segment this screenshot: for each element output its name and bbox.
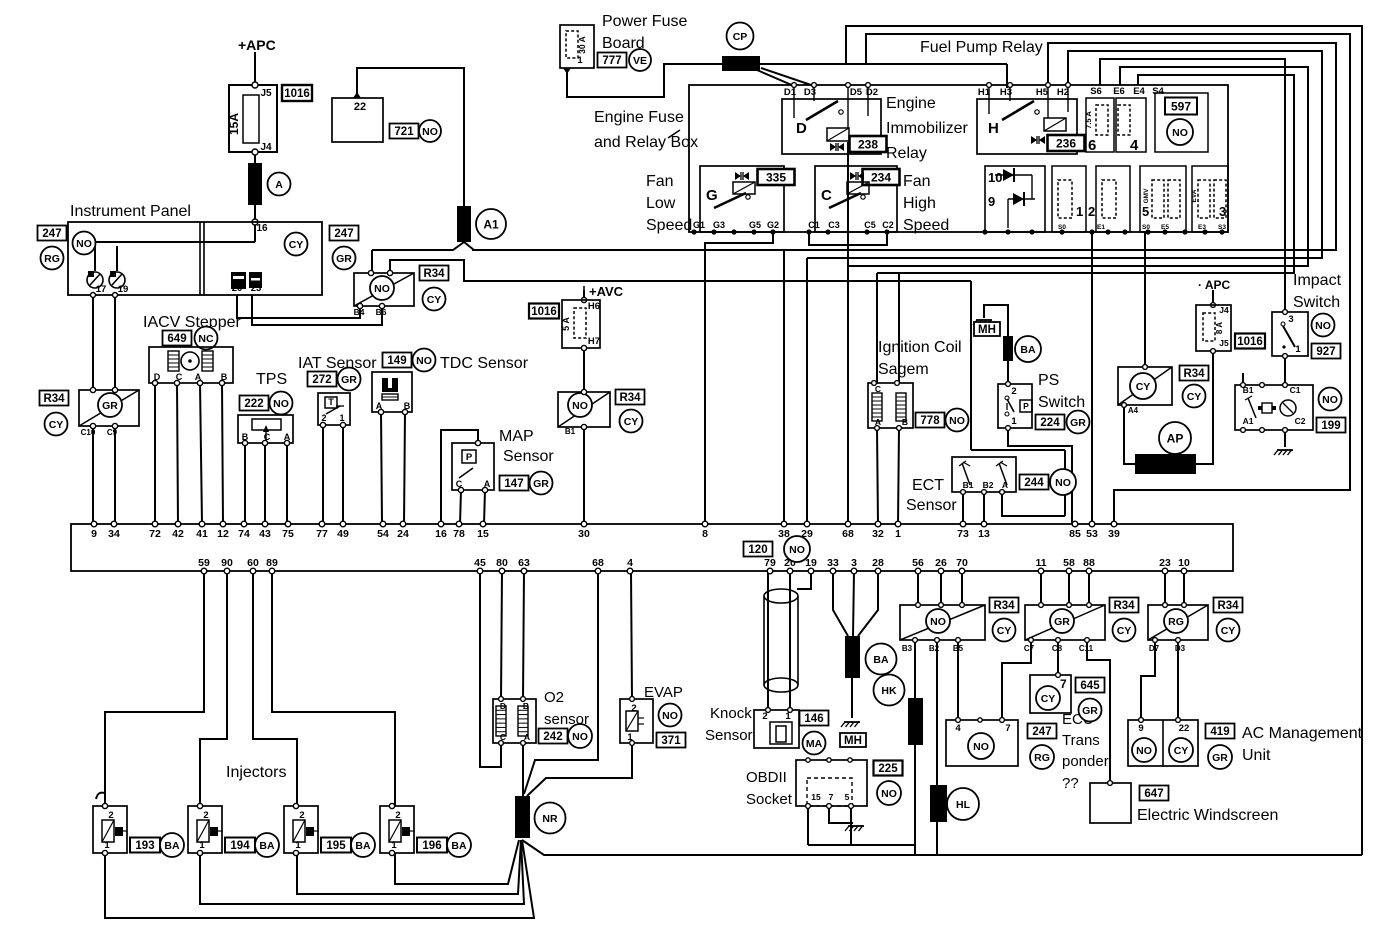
svg-text:CY: CY (1136, 381, 1151, 393)
svg-text:BA: BA (451, 840, 467, 852)
svg-text:5 A: 5 A (561, 317, 571, 331)
svg-text:1: 1 (895, 528, 901, 540)
svg-text:C1: C1 (1290, 385, 1301, 395)
svg-text:+AVC: +AVC (589, 284, 624, 299)
svg-text:A: A (1002, 480, 1008, 490)
svg-text:GR: GR (1082, 705, 1098, 717)
svg-text:O2: O2 (544, 689, 564, 706)
svg-text:J5: J5 (1219, 338, 1229, 348)
svg-text:597: 597 (1171, 99, 1191, 113)
svg-text:247: 247 (334, 228, 353, 240)
svg-text:MA: MA (806, 738, 823, 750)
svg-text:NO: NO (374, 283, 390, 295)
svg-text:AP: AP (1167, 431, 1184, 445)
svg-text:59: 59 (198, 557, 210, 569)
svg-text:OBDII: OBDII (746, 769, 787, 786)
svg-text:927: 927 (1316, 346, 1335, 358)
svg-text:B3: B3 (902, 644, 913, 653)
svg-text:T: T (328, 397, 334, 407)
svg-text:EVA: EVA (1191, 189, 1198, 202)
svg-text:7: 7 (1060, 677, 1067, 691)
svg-text:Unit: Unit (1242, 747, 1271, 764)
svg-text:CY: CY (1041, 693, 1056, 705)
svg-text:D1: D1 (784, 87, 797, 98)
svg-text:AC Management: AC Management (1242, 725, 1363, 742)
svg-text:GR: GR (1070, 417, 1086, 429)
svg-text:MH: MH (978, 324, 996, 336)
svg-text:28: 28 (872, 557, 884, 569)
svg-text:A1: A1 (483, 217, 499, 231)
svg-text:4: 4 (1130, 137, 1139, 154)
svg-text:70: 70 (956, 557, 968, 569)
svg-text:199: 199 (1321, 420, 1340, 432)
svg-text:BA: BA (355, 840, 371, 852)
svg-text:NO: NO (416, 355, 432, 367)
svg-text:Sagem: Sagem (878, 361, 929, 378)
svg-text:Speed: Speed (646, 217, 692, 234)
svg-text:32: 32 (872, 528, 884, 540)
svg-text:63: 63 (518, 557, 530, 569)
svg-text:NC: NC (198, 333, 214, 345)
svg-text:B: B (523, 701, 529, 711)
svg-text:10: 10 (988, 170, 1002, 185)
svg-text:R34: R34 (619, 392, 641, 404)
svg-text:60: 60 (247, 557, 259, 569)
svg-text:VE: VE (633, 55, 647, 67)
svg-text:ponder: ponder (1062, 753, 1109, 770)
svg-text:Fan: Fan (646, 173, 674, 190)
svg-text:IAT Sensor: IAT Sensor (298, 355, 377, 372)
svg-text:194: 194 (230, 840, 250, 852)
svg-text:C3: C3 (828, 220, 840, 230)
svg-text:5: 5 (845, 792, 850, 802)
svg-text:89: 89 (266, 557, 278, 569)
svg-text:16: 16 (435, 528, 447, 540)
svg-text:R34: R34 (423, 268, 445, 280)
svg-text:4: 4 (627, 557, 633, 569)
svg-text:C11: C11 (1079, 644, 1094, 653)
svg-text:15: 15 (477, 528, 489, 540)
svg-text:721: 721 (394, 126, 414, 138)
svg-text:224: 224 (1040, 417, 1060, 429)
svg-text:Switch: Switch (1293, 294, 1340, 311)
svg-text:H2: H2 (1057, 87, 1069, 98)
svg-text:68: 68 (592, 557, 604, 569)
svg-text:68: 68 (842, 528, 854, 540)
svg-text:G2: G2 (767, 220, 779, 230)
svg-text:C9: C9 (107, 428, 118, 437)
svg-text:A4: A4 (1128, 406, 1139, 415)
svg-text:242: 242 (543, 731, 562, 743)
svg-text:149: 149 (387, 355, 406, 367)
svg-text:Low: Low (646, 195, 676, 212)
svg-text:195: 195 (326, 840, 346, 852)
svg-text:GR: GR (102, 400, 118, 412)
svg-text:15: 15 (811, 792, 821, 802)
svg-text:H6: H6 (588, 301, 600, 312)
svg-text:TDC Sensor: TDC Sensor (440, 355, 529, 372)
svg-text:C2: C2 (882, 220, 894, 230)
svg-text:647: 647 (1144, 788, 1163, 800)
svg-text:B4: B4 (354, 307, 365, 317)
svg-text:Instrument Panel: Instrument Panel (70, 203, 191, 220)
svg-text:HK: HK (881, 685, 897, 697)
svg-text:P: P (466, 452, 473, 463)
svg-text:30: 30 (578, 528, 590, 540)
svg-text:Engine Fuse: Engine Fuse (594, 109, 684, 126)
svg-text:NO: NO (930, 616, 946, 628)
svg-text:4: 4 (955, 723, 961, 734)
svg-text:E4: E4 (1133, 86, 1145, 97)
svg-text:B2: B2 (929, 644, 940, 653)
svg-text:R34: R34 (43, 393, 65, 405)
svg-text:1016: 1016 (531, 306, 557, 318)
svg-text:1: 1 (1011, 416, 1017, 427)
svg-text:Electric Windscreen: Electric Windscreen (1137, 807, 1278, 824)
svg-text:High: High (903, 195, 936, 212)
svg-text:Immobilizer: Immobilizer (886, 120, 968, 137)
svg-text:MAP: MAP (499, 428, 534, 445)
svg-text:C1: C1 (808, 220, 820, 230)
svg-text:Socket: Socket (746, 791, 793, 808)
svg-text:10: 10 (1178, 557, 1190, 569)
svg-text:CP: CP (733, 31, 748, 43)
svg-text:645: 645 (1080, 680, 1100, 692)
svg-text:1: 1 (1076, 204, 1083, 219)
svg-text:3: 3 (1219, 204, 1226, 219)
svg-text:19: 19 (118, 284, 129, 295)
svg-text:147: 147 (504, 478, 523, 490)
svg-text:NO: NO (1055, 477, 1071, 489)
svg-text:371: 371 (661, 735, 681, 747)
svg-text:45: 45 (474, 557, 486, 569)
svg-text:53: 53 (1086, 528, 1098, 540)
svg-text:649: 649 (167, 333, 186, 345)
svg-text:CY: CY (1117, 625, 1132, 637)
svg-text:20: 20 (232, 283, 243, 294)
svg-text:NO: NO (572, 400, 588, 412)
svg-text:34: 34 (108, 528, 120, 540)
svg-text:120: 120 (748, 544, 767, 556)
svg-text:RG: RG (1034, 752, 1050, 764)
svg-text:ECT: ECT (912, 477, 944, 494)
svg-text:Fuel Pump Relay: Fuel Pump Relay (920, 39, 1043, 56)
svg-text:79: 79 (764, 557, 776, 569)
svg-text:17: 17 (96, 284, 107, 295)
svg-text:777: 777 (602, 55, 621, 67)
svg-text:225: 225 (878, 763, 898, 775)
svg-text:BA: BA (873, 654, 889, 666)
svg-text:NO: NO (949, 415, 965, 427)
svg-text:J4: J4 (1219, 305, 1229, 315)
svg-text:D5: D5 (850, 87, 863, 98)
svg-text:GR: GR (341, 374, 357, 386)
svg-text:C8: C8 (1052, 644, 1063, 653)
svg-text:A: A (524, 732, 530, 742)
svg-text:3: 3 (1288, 314, 1293, 325)
svg-text:CY: CY (1221, 625, 1236, 637)
svg-text:22: 22 (354, 101, 366, 113)
svg-text:193: 193 (135, 840, 154, 852)
svg-text:CY: CY (624, 416, 639, 428)
svg-text:D: D (500, 701, 506, 711)
svg-text:E1: E1 (1097, 224, 1105, 231)
svg-text:1: 1 (577, 55, 583, 66)
svg-text:42: 42 (172, 528, 184, 540)
svg-text:CY: CY (289, 239, 304, 251)
svg-text:R34: R34 (993, 600, 1015, 612)
svg-text:B2: B2 (983, 480, 994, 490)
svg-text:247: 247 (42, 228, 61, 240)
svg-text:Switch: Switch (1038, 394, 1085, 411)
svg-text:2: 2 (321, 413, 326, 423)
svg-text:85: 85 (1069, 528, 1081, 540)
svg-text:TPS: TPS (256, 371, 287, 388)
svg-text:Engine: Engine (886, 95, 936, 112)
svg-text:R34: R34 (1217, 600, 1239, 612)
svg-text:NO: NO (662, 710, 678, 722)
svg-text:8 A: 8 A (1215, 322, 1224, 334)
svg-text:C2: C2 (1295, 416, 1306, 426)
svg-text:Sensor: Sensor (503, 448, 554, 465)
svg-text:H5: H5 (1036, 87, 1049, 98)
svg-text:8: 8 (702, 528, 708, 540)
svg-text:6: 6 (1088, 137, 1096, 154)
svg-text:2: 2 (1088, 204, 1095, 219)
svg-text:Power Fuse: Power Fuse (602, 13, 687, 30)
svg-text:Speed: Speed (903, 217, 949, 234)
svg-text:MH: MH (844, 735, 862, 747)
svg-text:and Relay Box: and Relay Box (594, 134, 698, 151)
svg-text:5: 5 (1142, 204, 1149, 219)
svg-text:A1: A1 (1243, 416, 1254, 426)
svg-text:33: 33 (827, 557, 839, 569)
svg-text:P: P (1023, 401, 1029, 411)
svg-text:2: 2 (631, 703, 636, 714)
svg-text:Fan: Fan (903, 173, 931, 190)
svg-text:77: 77 (316, 528, 328, 540)
svg-text:244: 244 (1024, 477, 1044, 489)
svg-text:C7: C7 (1024, 644, 1035, 653)
svg-text:RG: RG (1168, 616, 1184, 628)
svg-text:74: 74 (238, 528, 250, 540)
svg-text:H: H (988, 120, 999, 137)
svg-text:16: 16 (256, 223, 268, 234)
svg-text:R34: R34 (1183, 368, 1205, 380)
svg-text:39: 39 (1108, 528, 1120, 540)
svg-text:90: 90 (221, 557, 233, 569)
svg-text:BA: BA (259, 840, 275, 852)
svg-text:CY: CY (1187, 391, 1202, 403)
svg-text:Injectors: Injectors (226, 764, 286, 781)
svg-text:88: 88 (1083, 557, 1095, 569)
svg-text:75: 75 (282, 528, 294, 540)
svg-text:NO: NO (76, 238, 92, 250)
svg-text:H7: H7 (588, 336, 600, 347)
svg-text:NO: NO (1136, 745, 1152, 757)
svg-text:J5: J5 (260, 88, 272, 99)
svg-text:9: 9 (1138, 723, 1143, 734)
svg-text:NO: NO (881, 788, 897, 800)
svg-text:9: 9 (91, 528, 97, 540)
svg-text:222: 222 (244, 398, 263, 410)
svg-text:778: 778 (920, 415, 940, 427)
svg-text:C: C (821, 187, 832, 204)
svg-text:C: C (875, 384, 881, 394)
svg-text:NO: NO (789, 544, 805, 556)
svg-text:22: 22 (1179, 723, 1190, 734)
svg-text:11: 11 (1035, 557, 1046, 569)
svg-text:Impact: Impact (1293, 272, 1342, 289)
svg-text:58: 58 (1063, 557, 1075, 569)
svg-text:13: 13 (978, 528, 990, 540)
svg-text:NO: NO (1172, 127, 1188, 139)
svg-text:NO: NO (973, 741, 989, 753)
svg-text:23: 23 (251, 283, 262, 294)
svg-text:9: 9 (988, 194, 995, 209)
svg-text:??: ?? (1062, 775, 1079, 792)
svg-text:1016: 1016 (1237, 336, 1263, 348)
svg-text:J4: J4 (260, 142, 272, 153)
svg-text:12: 12 (217, 528, 229, 540)
svg-text:1: 1 (339, 413, 344, 423)
svg-text:S4: S4 (1152, 86, 1164, 97)
svg-text:HL: HL (956, 799, 971, 811)
svg-text:236: 236 (1056, 136, 1076, 150)
svg-text:BA: BA (1020, 344, 1036, 356)
svg-text:7: 7 (1005, 723, 1010, 734)
svg-text:IACV Stepper: IACV Stepper (143, 314, 242, 331)
svg-text:Sensor: Sensor (705, 727, 753, 744)
svg-text:+APC: +APC (238, 37, 276, 53)
svg-text:78: 78 (453, 528, 465, 540)
svg-text:43: 43 (259, 528, 271, 540)
svg-text:B1: B1 (565, 427, 576, 436)
svg-text:R34: R34 (1113, 600, 1135, 612)
svg-text:19: 19 (805, 557, 817, 569)
svg-text:41: 41 (196, 528, 208, 540)
svg-text:Relay: Relay (886, 145, 927, 162)
svg-text:NO: NO (422, 126, 438, 138)
svg-text:23: 23 (1159, 557, 1171, 569)
svg-text:B5: B5 (953, 644, 964, 653)
svg-text:30 A: 30 A (577, 36, 587, 54)
svg-text:G5: G5 (749, 220, 761, 230)
svg-text:272: 272 (312, 374, 331, 386)
svg-text:7: 7 (829, 792, 834, 802)
svg-text:G: G (706, 187, 718, 204)
svg-text:NO: NO (572, 731, 588, 743)
svg-text:D3: D3 (1175, 644, 1186, 653)
svg-text:1016: 1016 (284, 88, 310, 100)
svg-text:D: D (796, 120, 807, 137)
svg-text:CY: CY (1174, 745, 1189, 757)
svg-text:CY: CY (427, 294, 442, 306)
svg-text:CY: CY (49, 419, 64, 431)
svg-text:G1: G1 (693, 220, 705, 230)
svg-text:B: B (902, 417, 908, 427)
svg-text:54: 54 (377, 528, 389, 540)
svg-text:G3: G3 (713, 220, 725, 230)
svg-text:73: 73 (957, 528, 969, 540)
svg-text:56: 56 (912, 557, 924, 569)
svg-text:GR: GR (1054, 616, 1070, 628)
svg-text:234: 234 (871, 170, 891, 184)
svg-text:3: 3 (851, 557, 857, 569)
svg-text:D7: D7 (1149, 644, 1160, 653)
svg-text:NO: NO (1322, 394, 1338, 406)
svg-text:15A: 15A (227, 113, 241, 135)
svg-text:PS: PS (1038, 372, 1059, 389)
svg-text:196: 196 (422, 840, 441, 852)
svg-text:C5: C5 (864, 220, 876, 230)
svg-text:419: 419 (1210, 726, 1229, 738)
svg-text:Knock: Knock (710, 705, 752, 722)
svg-text:C10: C10 (81, 428, 96, 437)
svg-text:B6: B6 (376, 307, 387, 317)
svg-text:1: 1 (1295, 344, 1301, 355)
svg-text:72: 72 (149, 528, 161, 540)
svg-text:· APC: · APC (1198, 278, 1231, 292)
svg-text:B1: B1 (963, 480, 974, 490)
svg-text:335: 335 (766, 170, 786, 184)
svg-text:Ignition Coil: Ignition Coil (878, 339, 962, 356)
svg-text:NR: NR (542, 813, 558, 825)
svg-text:24: 24 (397, 528, 409, 540)
svg-text:Sensor: Sensor (906, 497, 957, 514)
svg-text:7.5 A: 7.5 A (1084, 111, 1093, 129)
svg-text:49: 49 (337, 528, 349, 540)
svg-text:Trans: Trans (1062, 732, 1100, 749)
svg-text:CY: CY (997, 625, 1012, 637)
svg-text:GMV: GMV (1143, 188, 1150, 203)
svg-text:RG: RG (44, 253, 60, 265)
svg-text:2: 2 (1011, 386, 1016, 397)
svg-text:26: 26 (935, 557, 947, 569)
svg-text:BA: BA (164, 840, 180, 852)
svg-text:E6: E6 (1113, 86, 1125, 97)
svg-text:247: 247 (1032, 726, 1051, 738)
svg-text:S6: S6 (1090, 86, 1102, 97)
svg-text:38: 38 (778, 528, 790, 540)
svg-text:GR: GR (1212, 752, 1228, 764)
svg-text:A: A (275, 179, 283, 191)
svg-text:NO: NO (273, 398, 289, 410)
svg-text:238: 238 (858, 137, 878, 151)
svg-text:NO: NO (1315, 320, 1331, 332)
svg-text:80: 80 (496, 557, 508, 569)
svg-text:GR: GR (336, 253, 352, 265)
svg-text:146: 146 (804, 713, 823, 725)
svg-text:GR: GR (533, 478, 549, 490)
